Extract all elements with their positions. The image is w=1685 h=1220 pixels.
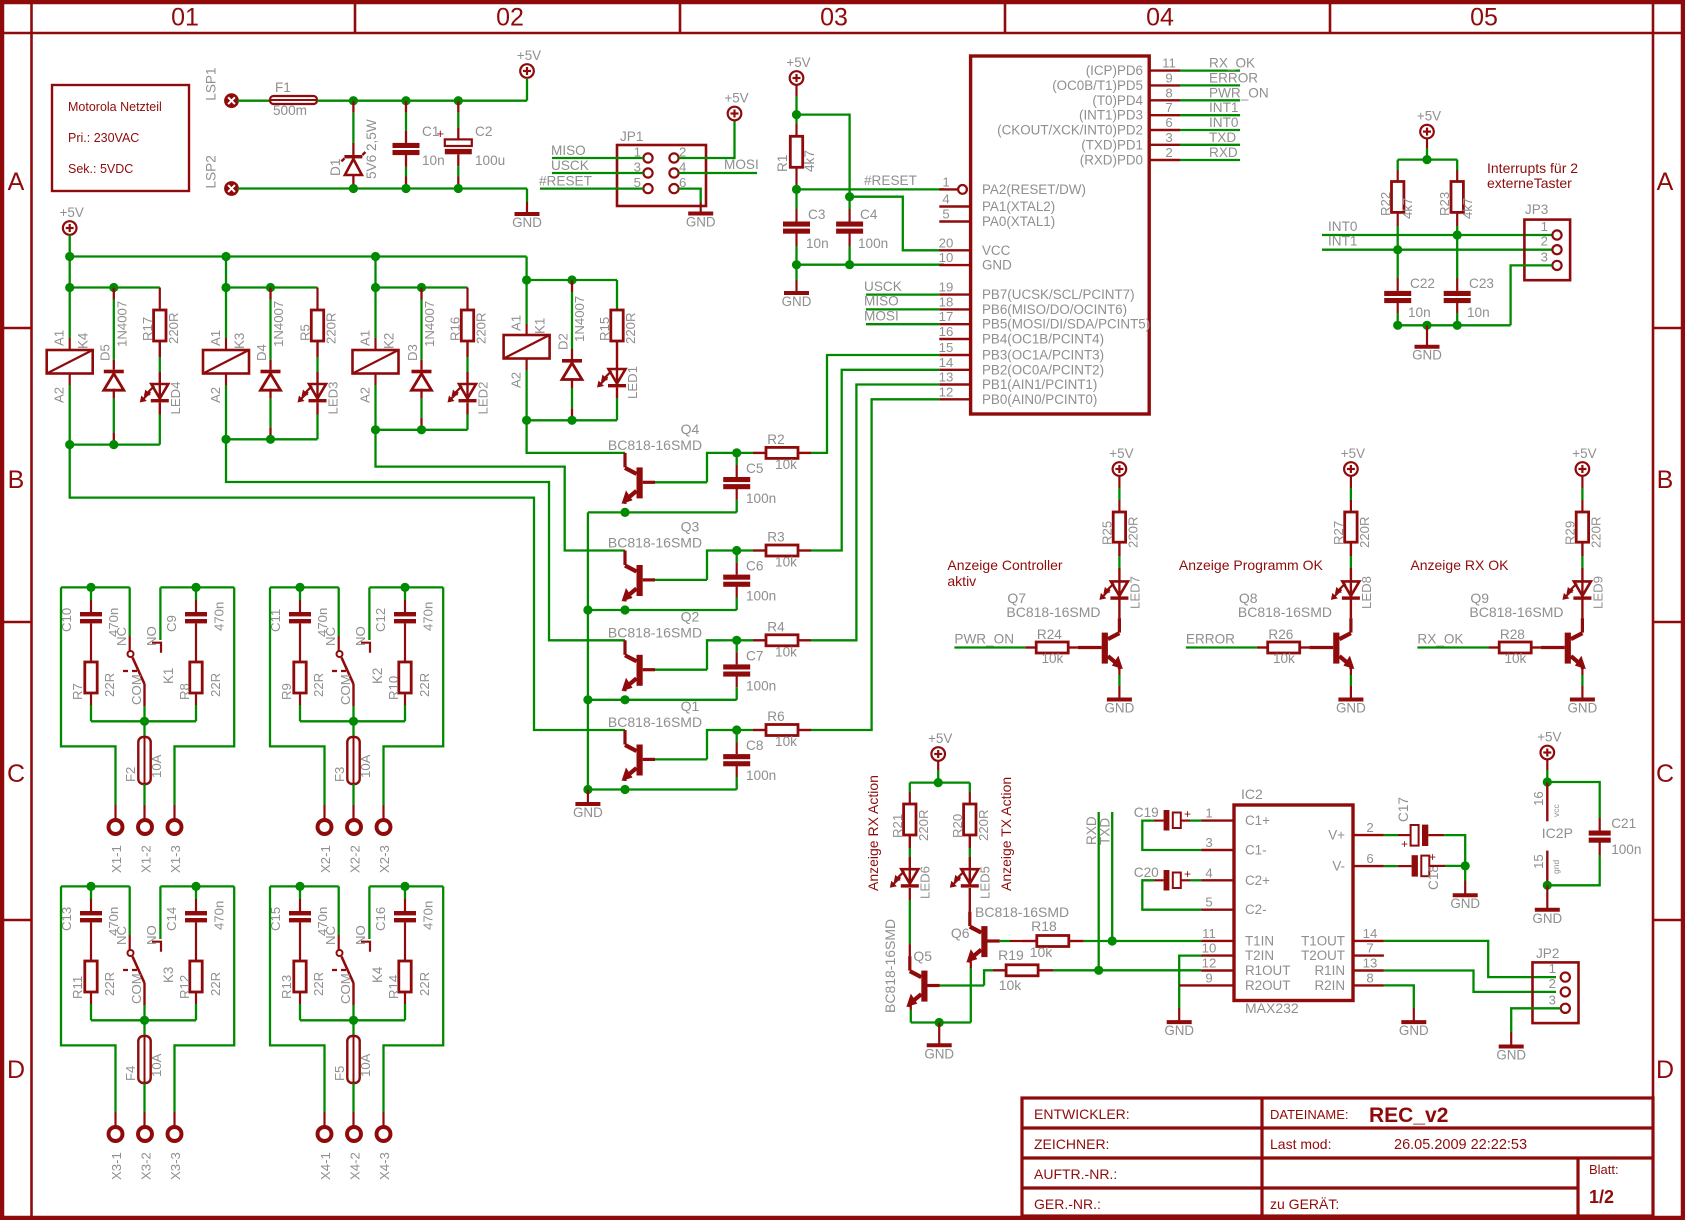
resistor R13 22R — [279, 961, 326, 1020]
svg-text:10n: 10n — [806, 236, 829, 251]
svg-text:R7: R7 — [70, 683, 85, 700]
resistor R22 4k7 — [1378, 160, 1415, 219]
resistor R26 10k — [1257, 627, 1310, 666]
junction dot D3 top — [417, 283, 426, 292]
svg-text:X4-2: X4-2 — [348, 1152, 363, 1180]
junction dot Q3 emitter — [620, 605, 629, 614]
LED LED7 — [1099, 542, 1142, 618]
IC2 box MAX232 — [1234, 786, 1353, 1016]
ground GND transistor chain — [573, 804, 603, 820]
svg-text:14: 14 — [1363, 926, 1378, 941]
wire emitter chain vertical — [587, 512, 589, 789]
wire K3 subrail — [226, 286, 318, 288]
svg-text:22R: 22R — [311, 673, 326, 697]
row label C right — [1656, 760, 1674, 788]
svg-text:+5V: +5V — [517, 48, 541, 63]
svg-text:R9: R9 — [279, 683, 294, 700]
svg-text:R23: R23 — [1437, 192, 1452, 216]
svg-text:220R: 220R — [166, 312, 181, 344]
svg-text:K2: K2 — [382, 333, 397, 349]
wire NC stub K1 — [128, 587, 134, 657]
wire #RESET to JP1 pin5 — [539, 174, 643, 189]
wire K2 to Q3 collector — [376, 430, 626, 551]
IC2 pin 12 R1OUT — [1202, 956, 1291, 979]
ground GND C17C18 — [1450, 895, 1480, 911]
wire K3 bottom rail — [226, 438, 318, 440]
+5V symbol JP1 — [724, 91, 748, 121]
svg-text:04: 04 — [1146, 4, 1174, 32]
svg-text:12: 12 — [939, 384, 954, 399]
svg-text:03: 03 — [820, 4, 848, 32]
svg-text:JP3: JP3 — [1525, 202, 1548, 217]
svg-text:1: 1 — [942, 174, 949, 189]
transistor Q4 BC818-16SMD — [608, 421, 702, 504]
wire JP2 pin3 to GND — [1511, 1008, 1561, 1046]
title value date — [1394, 1137, 1527, 1153]
wire K2 bottom rail — [376, 429, 468, 431]
wire up to +5V sym — [526, 79, 528, 101]
wire K2 coil to bottom — [374, 374, 376, 430]
capacitor C12 470n — [373, 587, 436, 662]
wire Q1 emitter rail — [588, 788, 737, 790]
JP3 pin circle 1 — [1552, 230, 1561, 239]
svg-text:20: 20 — [939, 235, 954, 250]
junction dot C11 top — [295, 583, 304, 592]
svg-text:R6: R6 — [767, 709, 784, 724]
ground GND C3 — [782, 293, 812, 309]
wire TXD to T1IN — [1112, 940, 1201, 942]
row label D right — [1656, 1056, 1674, 1084]
svg-text:R14: R14 — [386, 975, 401, 999]
svg-text:+5V: +5V — [1572, 446, 1596, 461]
wire R2IN to GND — [1384, 985, 1414, 1022]
capacitor C9 470n — [164, 587, 227, 662]
wire net MOSI pin17 — [864, 309, 939, 325]
LED LED2 — [448, 341, 491, 430]
junction dot K1 bottom — [522, 416, 531, 425]
svg-text:Interrupts für 2: Interrupts für 2 — [1487, 160, 1578, 176]
svg-text:10A: 10A — [149, 754, 164, 778]
svg-text:19: 19 — [939, 280, 954, 295]
wire net PWR_ON — [954, 632, 1025, 648]
svg-text:X3-3: X3-3 — [168, 1152, 183, 1180]
svg-text:BC818-16SMD: BC818-16SMD — [608, 624, 702, 640]
svg-text:C14: C14 — [164, 907, 179, 931]
svg-text:1: 1 — [1205, 806, 1212, 821]
svg-text:R13: R13 — [279, 975, 294, 999]
svg-text:V+: V+ — [1328, 828, 1345, 843]
junction dot q5q6 gnd — [935, 1018, 944, 1027]
wire int rail — [1398, 158, 1458, 160]
LED LED4 — [140, 341, 183, 445]
JP2 pin circle 1 — [1561, 973, 1570, 982]
junction dot K3 COM — [140, 1016, 149, 1025]
wire JP1 pin2 to +5V — [679, 121, 735, 158]
wire C20 loop — [1142, 880, 1201, 909]
capacitor C21 100n — [1589, 816, 1642, 857]
svg-text:GND: GND — [982, 258, 1012, 273]
wire IC2P gnd stub — [1546, 885, 1548, 910]
transistor Q5 BC818-16SMD — [882, 888, 940, 1013]
JP2 pin number 3 — [1549, 992, 1556, 1007]
svg-text:PB3(OC1A/PCINT3): PB3(OC1A/PCINT3) — [982, 348, 1104, 363]
wire Q8 emitter to GND — [1350, 665, 1352, 699]
junction dot C1 bottom — [401, 184, 410, 193]
svg-text:22R: 22R — [102, 972, 117, 996]
svg-text:11: 11 — [1202, 926, 1216, 941]
wire net TXD — [1180, 130, 1240, 145]
JP1 pin circle left 3 — [643, 168, 652, 177]
svg-text:LED5: LED5 — [978, 866, 993, 899]
frame left row divider y=328 — [0, 327, 32, 330]
junction dot K3 bottom — [221, 435, 230, 444]
JP2 pin circle 2 — [1561, 987, 1570, 996]
svg-text:R15: R15 — [597, 317, 612, 341]
wire K4 coil feed — [69, 257, 71, 351]
frame left column line — [30, 0, 33, 1220]
wire JP3 pin3 to gnd rail — [1511, 265, 1553, 325]
transistor Q3 BC818-16SMD — [608, 519, 702, 602]
pad X2-1 — [318, 820, 334, 873]
svg-text:X1-1: X1-1 — [109, 845, 124, 873]
wire Q1 base to node — [655, 730, 722, 759]
svg-text:PA2(RESET/DW): PA2(RESET/DW) — [982, 182, 1086, 197]
wire K3 to Q2 collector — [226, 439, 625, 640]
svg-text:LED9: LED9 — [1590, 576, 1605, 609]
IC2 pin 11 T1IN — [1202, 926, 1275, 949]
junction dot C23 gnd — [1453, 321, 1462, 330]
+5V symbol Q5Q6 — [928, 731, 952, 761]
svg-text:18: 18 — [939, 294, 954, 309]
wire T2IN to GND — [1179, 956, 1201, 1023]
junction dot D2 bottom — [567, 416, 576, 425]
JP1 pin circle left 5 — [643, 184, 652, 193]
wire NO stub K3 — [152, 886, 161, 951]
svg-text:01: 01 — [171, 4, 199, 32]
capacitor C23 10n — [1444, 235, 1494, 325]
frame right row divider y=622 — [1653, 621, 1685, 624]
ground GND T2IN — [1164, 1022, 1194, 1038]
IC1 pin 4 PA1(XTAL2) — [939, 192, 1055, 215]
wire led rail — [910, 781, 970, 783]
svg-text:7: 7 — [1165, 100, 1172, 115]
pad X4-3 — [377, 1127, 393, 1180]
wire K3 right outer — [175, 886, 235, 1126]
resistor R21 220R — [890, 783, 931, 841]
svg-text:REC_v2: REC_v2 — [1369, 1104, 1448, 1127]
wire K4 subrail — [70, 286, 160, 288]
resistor R15 220R — [597, 280, 638, 344]
JP1 pin number 4 — [679, 160, 686, 175]
note box Motorola Netzteil — [52, 85, 189, 191]
svg-text:C: C — [7, 760, 25, 788]
wire +5V to R27 — [1350, 476, 1352, 512]
frame top band line — [0, 32, 1685, 35]
svg-text:B: B — [1657, 466, 1674, 494]
svg-text:10k: 10k — [1273, 651, 1295, 666]
wire K4 coil to bottom — [69, 374, 71, 445]
wire node R4 — [722, 639, 753, 641]
svg-text:X2-1: X2-1 — [318, 845, 333, 873]
svg-text:1N4007: 1N4007 — [422, 301, 437, 347]
JP1 pin number 5 — [634, 175, 641, 190]
wire K2 subrail — [376, 286, 468, 288]
junction dot rail K3 — [221, 252, 230, 261]
svg-text:X2-3: X2-3 — [377, 845, 392, 873]
IC1 pin 15 PB3(OC1A/PCINT3) — [939, 340, 1104, 363]
svg-text:470n: 470n — [106, 608, 121, 637]
svg-text:220R: 220R — [623, 312, 638, 344]
IC2 pin 7 T2OUT — [1301, 941, 1384, 964]
LED LED6 — [890, 835, 933, 899]
wire D1 top — [352, 101, 354, 155]
svg-text:C20: C20 — [1134, 865, 1159, 880]
svg-text:D1: D1 — [328, 159, 343, 176]
IC1 pin 5 PA0(XTAL1) — [939, 207, 1055, 230]
wire chain to GND — [587, 790, 589, 805]
svg-text:17: 17 — [939, 309, 954, 324]
resistor R7 22R — [70, 662, 117, 721]
svg-text:R8: R8 — [177, 683, 192, 700]
ground GND R2IN — [1399, 1022, 1429, 1038]
ground GND Q7 — [1105, 700, 1135, 716]
svg-text:100n: 100n — [1611, 842, 1641, 857]
svg-text:10k: 10k — [1504, 651, 1526, 666]
svg-text:6: 6 — [1165, 115, 1172, 130]
junction dot gnd stub int — [1422, 321, 1431, 330]
junction dot K4 bottom — [65, 440, 74, 449]
IC1 pin 6 (CKOUT/XCK/INT0)PD2 — [997, 115, 1180, 138]
JP1 pin number 2 — [679, 145, 686, 160]
wire +5V to R1 — [795, 85, 797, 137]
svg-text:LSP1: LSP1 — [204, 67, 219, 100]
capacitor C3 10n — [783, 189, 829, 264]
junction dot D5 bottom — [109, 440, 118, 449]
svg-text:22R: 22R — [102, 673, 117, 697]
IC1 pin 17 PB5(MOSI/DI/SDA/PCINT5) — [939, 309, 1150, 332]
ground GND Q8 — [1336, 700, 1366, 716]
junction dot D2 top — [567, 275, 576, 284]
wire Q6 emitter gnd — [970, 959, 972, 1023]
IC2P pin 16 VCC — [1531, 782, 1573, 841]
junction dot K2 subrail — [371, 283, 380, 292]
svg-text:PB7(UCSK/SCL/PCINT7): PB7(UCSK/SCL/PCINT7) — [982, 287, 1135, 302]
solder pad LSP1 — [204, 67, 239, 108]
junction dot Q1 emitter — [620, 785, 629, 794]
wire K2 left outer — [270, 587, 325, 819]
IC1 pin 9 (OC0B/T1)PD5 — [1052, 70, 1180, 93]
svg-text:NO: NO — [353, 626, 368, 646]
svg-text:PA0(XTAL1): PA0(XTAL1) — [982, 214, 1055, 229]
svg-text:K4: K4 — [370, 966, 385, 983]
IC1 pin 1 PA2(RESET/DW) — [939, 174, 1086, 197]
transistor Q2 BC818-16SMD — [608, 608, 702, 691]
junction dot C17C18 gnd — [1461, 861, 1470, 870]
svg-text:zu GERÄT:: zu GERÄT: — [1270, 1196, 1339, 1212]
svg-text:+5V: +5V — [1109, 446, 1133, 461]
wire R1 to #RESET node — [795, 167, 797, 189]
JP3 pin number 1 — [1541, 219, 1548, 234]
svg-text:R4: R4 — [767, 619, 785, 634]
svg-text:LED4: LED4 — [168, 382, 183, 415]
svg-text:externeTaster: externeTaster — [1487, 175, 1572, 191]
svg-text:V-: V- — [1332, 859, 1345, 874]
junction dot C4 top — [845, 192, 854, 201]
svg-text:AUFTR.-NR.:: AUFTR.-NR.: — [1034, 1166, 1117, 1182]
ground GND Q9 — [1568, 700, 1598, 716]
junction dot led rail — [934, 778, 943, 787]
svg-text:6: 6 — [1366, 851, 1373, 866]
JP1 pin circle right 4 — [669, 168, 678, 177]
wire K3 coil feed — [225, 257, 227, 351]
wire PB3 to R2 — [814, 355, 939, 453]
LED LED5 — [950, 835, 993, 899]
svg-text:F3: F3 — [332, 767, 347, 782]
junction dot K1 COM — [140, 717, 149, 726]
svg-text:PB5(MOSI/DI/SDA/PCINT5): PB5(MOSI/DI/SDA/PCINT5) — [982, 317, 1150, 332]
svg-text:R27: R27 — [1331, 521, 1346, 545]
svg-text:02: 02 — [496, 4, 524, 32]
svg-text:Sek.: 5VDC: Sek.: 5VDC — [68, 162, 133, 176]
svg-text:R28: R28 — [1500, 627, 1525, 642]
capacitor C7 100n — [723, 640, 776, 700]
transistor Q1 BC818-16SMD — [608, 698, 702, 781]
JP1 pin number 1 — [634, 145, 641, 160]
IC2 pin 6 V- — [1332, 851, 1384, 874]
frame top divider 1 — [354, 0, 357, 33]
JP3 pin circle 2 — [1552, 245, 1561, 254]
IC1 pin 7 (INT1)PD3 — [1079, 100, 1180, 123]
wire Q5 emitter gnd — [910, 1003, 912, 1022]
capacitor C6 100n — [723, 551, 776, 611]
resistor R25 220R — [1099, 512, 1140, 548]
diode D2 1N4007 — [556, 280, 588, 420]
svg-text:#RESET: #RESET — [864, 173, 917, 188]
junction dot IC2P vcc — [1543, 777, 1552, 786]
svg-text:10k: 10k — [775, 644, 797, 659]
svg-text:9: 9 — [1165, 70, 1172, 85]
+5V symbol Q9 — [1572, 446, 1596, 476]
wire R1IN to JP2 pin2 — [1384, 971, 1556, 992]
svg-text:MISO: MISO — [864, 294, 899, 309]
resistor R16 220R — [448, 288, 489, 345]
svg-text:R22: R22 — [1378, 192, 1393, 216]
IC2 pin 14 T1OUT — [1301, 926, 1384, 949]
svg-text:+: + — [1401, 837, 1408, 851]
wire net INT1 — [1180, 100, 1240, 115]
wire C21 branch bottom — [1547, 843, 1599, 886]
IC2 pin 9 R2OUT — [1202, 970, 1291, 993]
capacitor C13 470n — [59, 886, 121, 961]
note Anzeige TX Action — [998, 777, 1014, 891]
ground GND IC2P — [1532, 910, 1562, 926]
row label A left — [8, 168, 25, 196]
junction dot C12 top — [400, 583, 409, 592]
wire +5V to led rail — [937, 761, 939, 783]
junction dot K1 subrail — [522, 275, 531, 284]
row label B left — [8, 466, 25, 494]
svg-text:R19: R19 — [998, 947, 1024, 963]
svg-text:INT0: INT0 — [1328, 219, 1358, 234]
resistor R5 220R — [298, 288, 339, 345]
svg-text:3: 3 — [1205, 835, 1212, 850]
wire LSP1 to F1 — [238, 100, 271, 102]
svg-text:GND: GND — [1105, 701, 1135, 716]
JP3 pin number 3 — [1541, 249, 1548, 264]
IC1 pin 18 PB6(MISO/DO/OCINT6) — [939, 294, 1127, 317]
wire C17 to gnd node — [1428, 835, 1465, 866]
transistor Q8 BC818-16SMD — [1238, 590, 1355, 669]
connector JP1 box — [617, 129, 706, 206]
junction dot TXD — [1108, 936, 1117, 945]
svg-text:RXD: RXD — [1084, 816, 1099, 845]
svg-text:12: 12 — [1202, 956, 1217, 971]
wire net USCK pin19 — [864, 279, 939, 295]
svg-text:TXD: TXD — [1209, 130, 1236, 145]
svg-text:GND: GND — [573, 805, 603, 820]
svg-text:1: 1 — [1549, 961, 1556, 976]
+5V symbol R1 — [786, 55, 810, 85]
svg-text:vcc: vcc — [1551, 804, 1561, 818]
svg-text:K3: K3 — [161, 967, 176, 983]
IC1 pin 13 PB1(AIN1/PCINT1) — [939, 370, 1098, 393]
resistor R12 22R — [177, 961, 223, 1020]
svg-text:470n: 470n — [421, 901, 436, 930]
wire NC stub K4 — [337, 886, 343, 956]
svg-text:8: 8 — [1165, 85, 1172, 100]
LED LED8 — [1331, 542, 1374, 618]
IC1 pin 11 (ICP)PD6 — [1086, 56, 1180, 79]
resistor R11 22R — [70, 961, 117, 1020]
svg-text:ERROR: ERROR — [1209, 70, 1258, 85]
junction dot D1 bottom — [349, 184, 358, 193]
svg-text:100n: 100n — [746, 768, 776, 783]
resistor R23 4k7 — [1437, 160, 1475, 219]
svg-text:BC818-16SMD: BC818-16SMD — [608, 437, 702, 453]
svg-text:B: B — [8, 466, 25, 494]
svg-text:10: 10 — [939, 250, 954, 265]
wire Q6 base to R18 — [1000, 940, 1023, 942]
transistor Q6 BC818-16SMD — [951, 888, 1069, 963]
svg-text:K1: K1 — [533, 318, 548, 334]
+5V symbol Q7 — [1109, 446, 1133, 476]
svg-text:D4: D4 — [254, 344, 269, 361]
svg-text:7: 7 — [1366, 941, 1373, 956]
svg-text:8: 8 — [1366, 970, 1373, 985]
wire node R3 — [722, 549, 753, 551]
svg-text:Anzeige Controller: Anzeige Controller — [947, 557, 1063, 573]
svg-text:R18: R18 — [1031, 918, 1057, 934]
svg-text:10A: 10A — [149, 1053, 164, 1077]
svg-text:C12: C12 — [373, 608, 388, 632]
frame right row divider y=328 — [1653, 327, 1685, 330]
wire K1 coil wires — [525, 280, 527, 420]
junction dot int rail — [1422, 155, 1431, 164]
svg-text:4: 4 — [1205, 865, 1212, 880]
junction dot +5V branch — [792, 110, 801, 119]
pad X3-2 — [138, 1127, 154, 1180]
resistor R29 220R — [1562, 512, 1603, 548]
wire K1 bottom rail — [527, 419, 617, 421]
svg-text:R5: R5 — [298, 324, 313, 341]
junction dot R3 node — [732, 546, 741, 555]
row label C left — [7, 760, 25, 788]
svg-text:C8: C8 — [746, 738, 763, 753]
svg-text:1: 1 — [1541, 219, 1548, 234]
svg-text:F4: F4 — [123, 1066, 138, 1081]
ground GND JP2 — [1496, 1047, 1526, 1063]
svg-text:COM: COM — [338, 674, 353, 705]
